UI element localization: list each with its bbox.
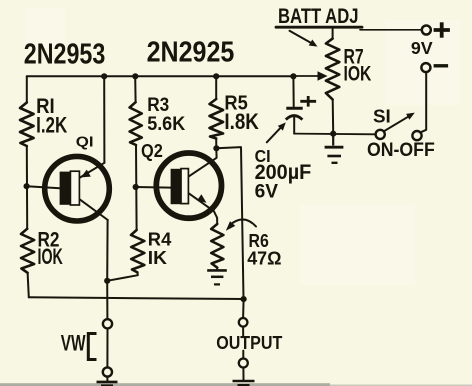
svg-text:VW: VW xyxy=(61,331,86,356)
node Q1 collector R4 xyxy=(104,278,110,284)
wire C1 top lead xyxy=(292,76,294,106)
wire mid vertical middle xyxy=(135,145,138,230)
wire Q1 collector vertical xyxy=(106,220,108,281)
svg-text:I.2K: I.2K xyxy=(36,112,67,137)
wire R4 to node diagonal xyxy=(107,272,138,280)
wire VW jack to ground xyxy=(106,377,108,381)
wire battery minus to switch xyxy=(421,72,427,132)
wire R5 lead bottom xyxy=(215,139,217,149)
wire to battery plus xyxy=(360,29,422,31)
node rail-R3 xyxy=(132,73,138,79)
ground under OUTPUT jack xyxy=(233,381,255,385)
VW bracket xyxy=(88,334,96,360)
battery plus terminal xyxy=(422,22,450,37)
arrowhead C1 xyxy=(278,122,286,130)
wire Q1 base xyxy=(27,186,60,188)
arrowhead S1 lever xyxy=(406,113,415,120)
svg-text:ON-OFF: ON-OFF xyxy=(367,140,435,161)
wire top rail xyxy=(27,75,294,77)
resistor R2 xyxy=(21,229,34,273)
svg-text:47Ω: 47Ω xyxy=(247,248,281,269)
wire C1 bottom lead xyxy=(293,118,295,134)
svg-text:9V: 9V xyxy=(411,38,433,58)
resistor R1 xyxy=(20,103,34,147)
bottom gray scan band xyxy=(0,383,330,386)
wire bottom rail xyxy=(29,297,244,299)
wire to OUTPUT jack xyxy=(242,299,245,318)
capacitor C1 plates xyxy=(286,96,316,120)
transistor Q2 xyxy=(156,153,221,218)
battery minus terminal xyxy=(421,63,448,72)
VW jack circles xyxy=(103,319,112,376)
svg-text:5.6K: 5.6K xyxy=(147,113,186,135)
resistor R4 xyxy=(131,230,144,272)
wiper arrow line xyxy=(293,75,319,77)
wire R7 bottom lead xyxy=(332,99,335,133)
ground under VW jack xyxy=(97,382,118,386)
node output rail xyxy=(241,296,247,302)
wiper arrowhead R7 xyxy=(318,71,328,80)
node Q1 base divider xyxy=(24,183,30,189)
wire left vertical upper xyxy=(26,76,28,102)
node R7 bottom ground xyxy=(330,131,336,137)
wire R5 lead top xyxy=(215,76,217,99)
arrowhead BATT ADJ xyxy=(309,40,318,47)
ground under R7 xyxy=(325,134,344,163)
svg-text:I.8K: I.8K xyxy=(224,109,259,134)
switch S1 contacts xyxy=(376,130,422,140)
resistor R5 xyxy=(210,99,224,139)
arrowhead R6 xyxy=(226,221,236,231)
arrowheads xyxy=(226,40,415,231)
svg-text:SI: SI xyxy=(373,107,391,128)
wire VW jack middle xyxy=(106,329,108,368)
svg-text:2N2925: 2N2925 xyxy=(147,36,235,68)
resistor R7 potentiometer xyxy=(326,39,339,100)
wire left mid xyxy=(26,146,28,229)
wire R7 top lead xyxy=(332,27,334,38)
annotation arrow R6 curved xyxy=(231,219,257,226)
wire Q1 collector diagonal xyxy=(80,199,108,220)
resistor R3 xyxy=(130,102,142,145)
wire Q2 base xyxy=(136,186,171,189)
annotation arrow C1 xyxy=(267,127,281,142)
svg-text:BATT ADJ: BATT ADJ xyxy=(278,3,359,28)
wire mid vertical upper xyxy=(134,76,136,102)
svg-text:OUTPUT: OUTPUT xyxy=(216,333,282,353)
wire S1 lever xyxy=(384,115,411,131)
wire Q1 emitter vertical xyxy=(103,76,105,163)
wire output jog xyxy=(216,147,243,299)
svg-text:2N2953: 2N2953 xyxy=(24,37,106,69)
svg-text:6V: 6V xyxy=(255,181,278,203)
wire Q1 emitter diagonal xyxy=(80,163,105,178)
node rail-C1 xyxy=(290,73,296,79)
node rail-Q1e xyxy=(101,73,107,79)
wire Q2 collector xyxy=(189,148,217,176)
ground under R6 xyxy=(207,270,227,284)
svg-text:QI: QI xyxy=(76,134,94,151)
node rail-R5 xyxy=(213,73,219,79)
wire left lower xyxy=(28,273,29,298)
wire OUTPUT jack middle lower xyxy=(242,351,244,359)
wire BATT ADJ rail thick xyxy=(276,26,362,29)
wire R6 to ground xyxy=(216,268,218,270)
svg-text:IK: IK xyxy=(148,247,168,268)
svg-text:IOK: IOK xyxy=(344,62,372,86)
svg-text:IOK: IOK xyxy=(38,244,63,269)
wire Q2 emitter xyxy=(189,193,217,224)
svg-text:Q2: Q2 xyxy=(141,140,163,161)
OUTPUT jack circles xyxy=(239,318,248,368)
wire OUTPUT jack middle upper xyxy=(242,327,244,337)
wire OUTPUT jack to ground xyxy=(242,367,244,379)
node R5-Q2 collector xyxy=(213,145,219,151)
node Q2 base divider xyxy=(133,184,139,190)
annotation arrow BATT ADJ xyxy=(290,31,313,44)
wire to VW jack xyxy=(106,281,108,319)
wire C1 to S1 xyxy=(294,133,375,136)
resistor R6 xyxy=(211,224,223,268)
C1 plus sign xyxy=(300,100,316,103)
transistor Q1 xyxy=(45,156,110,221)
